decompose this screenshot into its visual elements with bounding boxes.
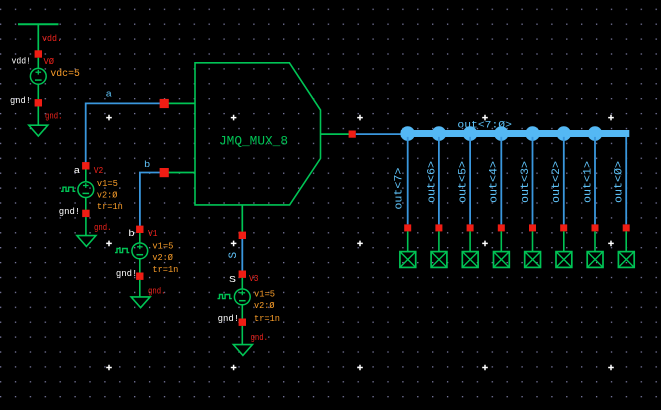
mux instance JMQ_MUX_8 body: [195, 63, 321, 205]
pin noConn out<4>: [498, 224, 505, 231]
wire V3 to ground: [241, 326, 243, 345]
svg-text:gnd.: gnd.: [148, 285, 166, 296]
noConn symbol out<6>: [431, 231, 447, 267]
svg-text:out<2>: out<2>: [551, 161, 563, 203]
svg-text:gnd!: gnd!: [10, 95, 31, 106]
svg-text:out<4>: out<4>: [489, 161, 501, 203]
svg-text:gnd!: gnd!: [116, 268, 137, 279]
pin V2 minus terminal: [82, 210, 89, 217]
bus tap out<5>: [463, 126, 478, 141]
vdd supply symbol: [18, 24, 59, 51]
noConn symbol out<4>: [494, 231, 510, 267]
pin noConn out<1>: [592, 224, 599, 231]
wire V1 to ground: [139, 280, 141, 297]
svg-text:vdd!: vdd!: [12, 56, 32, 67]
pin V3 minus terminal: [239, 319, 246, 326]
pin noConn out<7>: [404, 224, 411, 231]
bus out<7:0>: [401, 130, 629, 137]
svg-text:gnd!: gnd!: [218, 313, 240, 324]
noConn symbol out<3>: [525, 231, 541, 267]
svg-text:b: b: [144, 159, 151, 170]
svg-text:vdd.: vdd.: [42, 33, 62, 44]
pin V2 plus terminal: [82, 162, 89, 169]
noConn symbol out<2>: [556, 231, 572, 267]
mux pin b: [160, 168, 169, 177]
wire out<5>: [469, 137, 471, 225]
pin noConn out<5>: [467, 224, 474, 231]
noConn symbol out<Ø>: [618, 231, 634, 267]
bus tap out<2>: [557, 126, 572, 141]
svg-text:v2:Ø: v2:Ø: [97, 190, 118, 201]
svg-text:v2:Ø: v2:Ø: [152, 252, 173, 263]
svg-text:JMQ_MUX_8: JMQ_MUX_8: [219, 134, 288, 149]
svg-text:S: S: [228, 252, 240, 259]
pin noConn out<6>: [435, 224, 442, 231]
pin V1 plus terminal: [136, 226, 143, 233]
wire out<6>: [438, 137, 440, 225]
mux pin a: [160, 99, 169, 108]
noConn symbol out<7>: [400, 231, 416, 267]
pin noConn out<3>: [529, 224, 536, 231]
pin V1 minus terminal: [136, 273, 143, 280]
svg-text:VØ: VØ: [44, 56, 55, 67]
pulse source V3 body: [218, 278, 251, 319]
pin V0 minus terminal: [35, 99, 42, 106]
svg-text:a: a: [106, 88, 113, 99]
wire net b: [140, 173, 164, 229]
svg-text:v1=5: v1=5: [97, 178, 118, 189]
pin V0 plus terminal: [35, 50, 42, 57]
ground symbol (V1): [131, 297, 150, 308]
svg-text:tr=1n: tr=1n: [152, 264, 178, 275]
wire mux out to bus: [356, 133, 403, 135]
pin noConn out<Ø>: [623, 224, 630, 231]
svg-text:gnd.: gnd.: [45, 110, 63, 121]
svg-text:V3: V3: [249, 273, 259, 284]
svg-text:out<6>: out<6>: [426, 161, 438, 203]
mux pin S: [239, 232, 246, 239]
ground symbol (V0): [29, 125, 48, 136]
svg-text:v2:Ø: v2:Ø: [254, 300, 275, 311]
svg-text:V2: V2: [94, 165, 104, 176]
svg-text:out<1>: out<1>: [582, 161, 594, 203]
pin V3 plus terminal: [239, 271, 246, 278]
ground symbol (V3): [233, 345, 252, 356]
svg-text:out<3>: out<3>: [520, 161, 532, 203]
svg-text:out<7>: out<7>: [394, 168, 406, 210]
mux stub pin out: [321, 133, 353, 135]
svg-text:b: b: [128, 228, 135, 239]
svg-text:a: a: [74, 165, 81, 176]
svg-text:gnd.: gnd.: [251, 332, 269, 343]
pulse source V2 body: [61, 169, 94, 210]
noConn symbol out<5>: [462, 231, 478, 267]
pin noConn out<2>: [560, 224, 567, 231]
wire V2 to ground: [85, 217, 87, 236]
wire net a: [86, 103, 164, 165]
bus tap out<4>: [494, 126, 509, 141]
svg-text:gnd!: gnd!: [59, 206, 81, 217]
wire net S: [241, 239, 243, 271]
bus tap out<6>: [432, 126, 447, 141]
noConn symbol out<1>: [587, 231, 603, 267]
svg-text:V1: V1: [148, 228, 158, 239]
mux stub pin S: [241, 205, 243, 232]
svg-text:v1=5: v1=5: [152, 241, 173, 252]
wire out<4>: [500, 137, 502, 225]
wire V0 to ground: [37, 106, 39, 125]
svg-text:out<5>: out<5>: [458, 161, 470, 203]
svg-text:S: S: [229, 274, 236, 285]
dc source V0 body: [30, 58, 46, 99]
origin markers (white crosses): [106, 115, 614, 370]
wire out<Ø>: [625, 137, 627, 225]
mux stub pin b: [164, 172, 195, 174]
mux stub pin a: [164, 102, 195, 104]
wire out<1>: [594, 137, 596, 225]
wire out<2>: [563, 137, 565, 225]
svg-text:gnd.: gnd.: [94, 222, 112, 233]
bus tap out<1>: [588, 126, 603, 141]
bus tap out<3>: [525, 126, 540, 141]
bus tap out<7>: [400, 126, 415, 141]
svg-text:out<Ø>: out<Ø>: [614, 161, 626, 203]
svg-text:tr=1n: tr=1n: [254, 313, 280, 324]
ground symbol (V2): [77, 236, 96, 247]
wire out<7>: [407, 137, 409, 225]
svg-text:vdc=5: vdc=5: [50, 68, 80, 80]
wire out<3>: [532, 137, 534, 225]
svg-text:v1=5: v1=5: [254, 288, 275, 299]
mux pin out: [349, 131, 356, 138]
svg-text:tr=1n: tr=1n: [97, 201, 123, 212]
pulse source V1 body: [115, 233, 148, 273]
